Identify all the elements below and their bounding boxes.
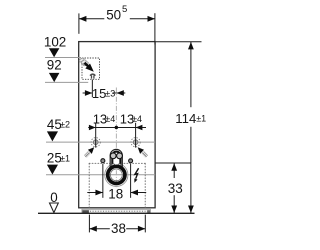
svg-text:±3: ±3 <box>105 89 115 99</box>
svg-text:±1: ±1 <box>196 114 206 124</box>
svg-text:18: 18 <box>108 187 123 202</box>
svg-text:±4: ±4 <box>105 114 115 124</box>
svg-text:0: 0 <box>50 190 57 205</box>
svg-text:102: 102 <box>44 35 66 50</box>
svg-text:±4: ±4 <box>132 114 142 124</box>
svg-text:38: 38 <box>111 221 126 236</box>
svg-text:±2: ±2 <box>60 120 70 130</box>
svg-text:114: 114 <box>175 111 196 126</box>
svg-text:15: 15 <box>92 86 106 101</box>
svg-text:33: 33 <box>168 181 183 196</box>
svg-text:±1: ±1 <box>60 153 70 163</box>
svg-text:92: 92 <box>47 57 62 72</box>
svg-text:5: 5 <box>122 4 127 15</box>
svg-text:50: 50 <box>106 7 121 22</box>
